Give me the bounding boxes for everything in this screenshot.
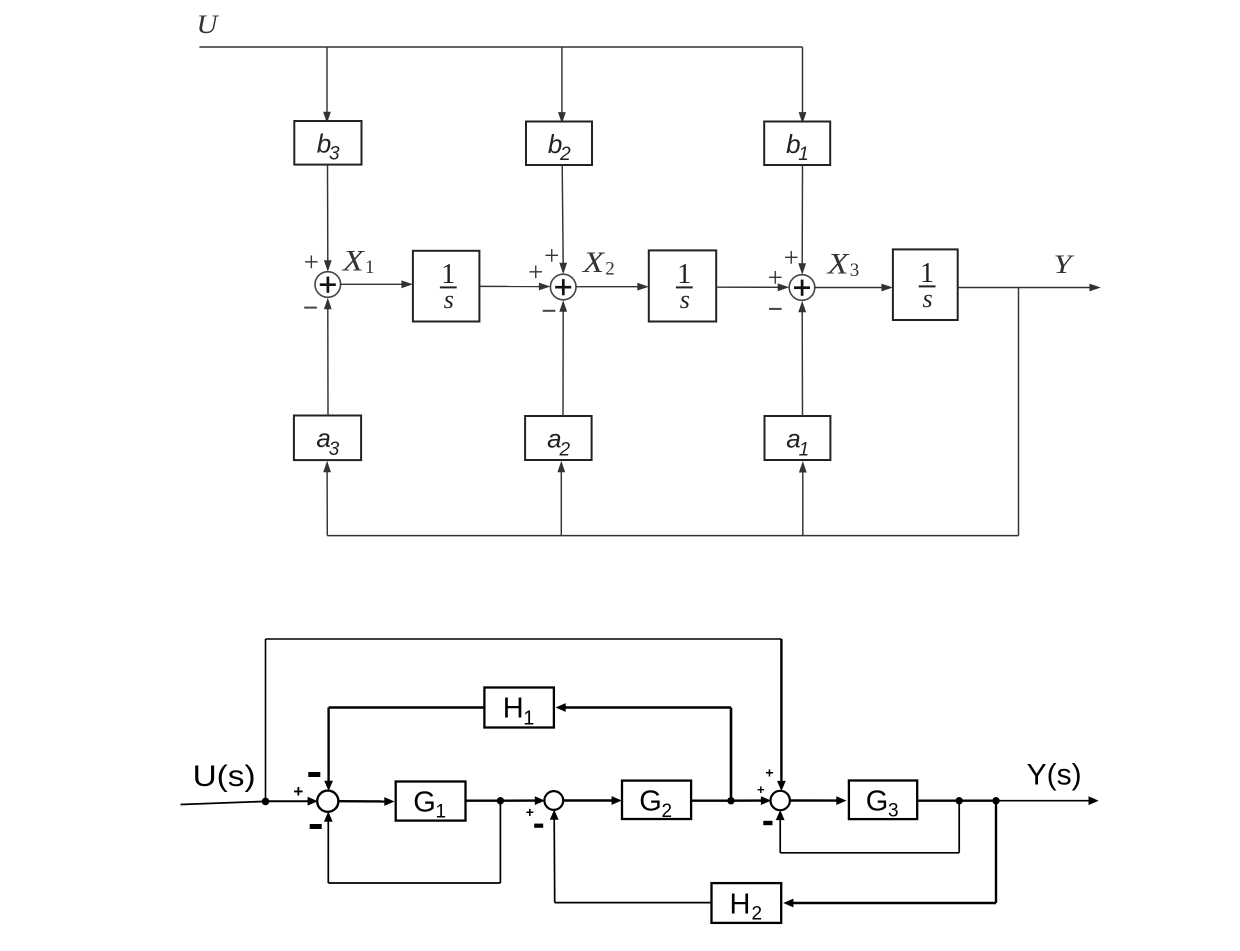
wire S2 to integrator 2 with arrow — [576, 286, 638, 288]
node dot after G2 — [727, 797, 734, 804]
node input junction dot — [262, 798, 270, 806]
svg-text:+: + — [526, 804, 534, 820]
wire H2 up into S2 with arrow — [553, 819, 556, 903]
wire a1 to S3 minus input with arrow — [801, 311, 803, 416]
wire output Y(s) with arrow — [996, 800, 1090, 802]
wire outer feedforward down into S3 with arrow — [780, 639, 782, 782]
integrator block 3 (1/s) — [893, 249, 958, 320]
block b3 — [294, 121, 361, 165]
block G2 — [622, 781, 691, 819]
block G3 — [849, 781, 917, 820]
svg-text:3: 3 — [329, 439, 340, 460]
svg-text:2: 2 — [752, 904, 763, 925]
wire G2 to dot — [691, 800, 731, 802]
wire output tap down — [1018, 288, 1020, 536]
summing junction S2 (circle with plus) — [550, 274, 576, 300]
svg-text:1: 1 — [799, 440, 810, 461]
wire a2 to S2 minus input with arrow — [562, 311, 564, 416]
svg-text:X: X — [342, 244, 366, 277]
block b2 — [526, 122, 592, 166]
svg-text:3: 3 — [888, 801, 899, 822]
block G1 — [396, 782, 466, 821]
wire outer feedforward up from input dot — [265, 639, 267, 801]
svg-text:1: 1 — [523, 707, 534, 729]
svg-text:2: 2 — [559, 440, 571, 461]
wire H2 loop down from tap — [995, 801, 997, 903]
wire G1 to dot — [466, 800, 501, 802]
wire feedback bus bottom — [327, 535, 1018, 537]
svg-text:G: G — [639, 786, 662, 818]
wire S1 to G1 with arrow — [338, 800, 385, 803]
wire G1 loop up into S1 with arrow — [327, 821, 329, 883]
svg-text:+: + — [765, 765, 773, 781]
svg-text:+: + — [528, 257, 543, 287]
wire H1 feedback right segment with arrow into H1 — [565, 706, 731, 709]
wire U bus horizontal — [199, 46, 802, 48]
svg-text:s: s — [680, 285, 690, 314]
wire feedback up to a2 with arrow — [560, 471, 562, 535]
wire integrator 2 to S3 with arrow — [716, 286, 779, 288]
summing circle S1 — [317, 791, 338, 812]
wire feedback up to a3 with arrow — [326, 471, 328, 535]
svg-text:+: + — [293, 782, 303, 801]
wire dot to S2 with arrow — [500, 799, 535, 802]
svg-text:X: X — [826, 248, 850, 281]
wire integrator 1 to S2 with arrow — [479, 285, 540, 287]
svg-text:+: + — [544, 241, 559, 271]
svg-text:2: 2 — [605, 258, 615, 279]
wire outer feedforward top horizontal — [266, 638, 782, 640]
svg-text:Y: Y — [1054, 250, 1075, 279]
svg-text:+: + — [304, 247, 319, 277]
wire input dot to S1 with arrow — [266, 800, 309, 802]
block a2 — [525, 416, 592, 460]
svg-text:3: 3 — [329, 144, 340, 165]
wire G1 loop bottom horizontal — [328, 882, 500, 884]
svg-text:U: U — [197, 10, 220, 39]
wire b3 to summing junction 1 with arrow — [327, 165, 329, 262]
svg-text:1: 1 — [365, 257, 375, 278]
wire G1 loop down from dot — [499, 801, 501, 883]
wire U drop to b3 with arrow — [326, 47, 328, 113]
wire integrator 3 to output Y with arrow — [958, 287, 1091, 289]
wire G3 loop bottom horizontal — [780, 852, 959, 854]
sign minus at S1 bottom (from G1 loop) — [310, 824, 322, 829]
summing circle S3 — [771, 791, 790, 810]
svg-text:G: G — [866, 786, 889, 818]
svg-text:+: + — [784, 242, 799, 272]
node dot G3 local feedback tap — [956, 797, 963, 804]
wire dot to S3 with arrow — [731, 799, 762, 802]
svg-text:s: s — [444, 285, 454, 314]
wire b1 to summing junction 3 with arrow — [801, 165, 803, 264]
block a1 — [765, 416, 831, 460]
wire a3 to S1 minus input with arrow — [327, 308, 329, 415]
svg-text:1: 1 — [436, 802, 447, 823]
wire feedback up to a1 with arrow — [802, 472, 804, 536]
wire S3 to G3 with arrow — [789, 799, 837, 801]
wire input U(s) slanted — [181, 801, 266, 804]
sign minus at S2 bottom — [534, 824, 543, 828]
summing junction S3 (circle with plus) — [789, 275, 815, 301]
svg-text:+: + — [757, 782, 765, 797]
svg-text:U(s): U(s) — [193, 760, 256, 793]
block a3 — [294, 416, 361, 461]
integrator block 2 (1/s) — [649, 250, 716, 321]
block H2 — [712, 883, 782, 923]
wire H1 down into S1 with arrow — [327, 708, 329, 782]
svg-text:G: G — [413, 787, 436, 819]
svg-text:Y(s): Y(s) — [1027, 759, 1082, 792]
svg-text:3: 3 — [850, 260, 860, 281]
wire b2 to summing junction 2 with arrow — [562, 165, 563, 264]
sign minus at S1 bottom-left — [304, 307, 317, 309]
wire U drop to b2 with arrow — [561, 47, 563, 113]
sign minus at S2 bottom-left — [543, 310, 556, 312]
svg-text:2: 2 — [559, 144, 571, 165]
sign minus at S3 bottom-left — [769, 308, 782, 310]
wire G3 loop up into S3 with arrow — [779, 819, 781, 853]
wire G3 loop down from tap — [958, 801, 960, 853]
node dot H2 feedback tap — [992, 797, 999, 804]
sign minus at S1 top (from H1) — [308, 772, 320, 777]
svg-text:X: X — [582, 246, 606, 279]
wire G3 to output dots — [917, 800, 996, 802]
node dot after G1 — [497, 797, 504, 804]
svg-text:2: 2 — [662, 801, 673, 822]
integrator block 1 (1/s) — [413, 251, 480, 322]
block b1 — [764, 122, 830, 166]
wire H1 tap up from dot after G2 — [730, 708, 733, 801]
svg-text:1: 1 — [798, 144, 809, 165]
svg-text:s: s — [923, 284, 933, 313]
svg-text:H: H — [503, 693, 524, 725]
wire H2 loop horizontal with arrow into H2 — [792, 902, 996, 904]
wire U drop to b1 with arrow — [802, 47, 804, 113]
summing circle S2 — [544, 791, 563, 810]
wire H1 feedback left segment — [329, 706, 485, 709]
wire S1 to integrator 1 with arrow — [341, 283, 403, 285]
block H1 — [484, 688, 554, 728]
wire S3 to integrator 3 with arrow — [815, 287, 883, 289]
wire H2 feedback left segment — [555, 902, 712, 904]
wire S2 to G2 with arrow — [563, 799, 613, 801]
summing junction S1 (circle with plus) — [315, 272, 341, 298]
sign minus at S3 bottom — [763, 821, 772, 825]
svg-text:H: H — [730, 888, 751, 920]
